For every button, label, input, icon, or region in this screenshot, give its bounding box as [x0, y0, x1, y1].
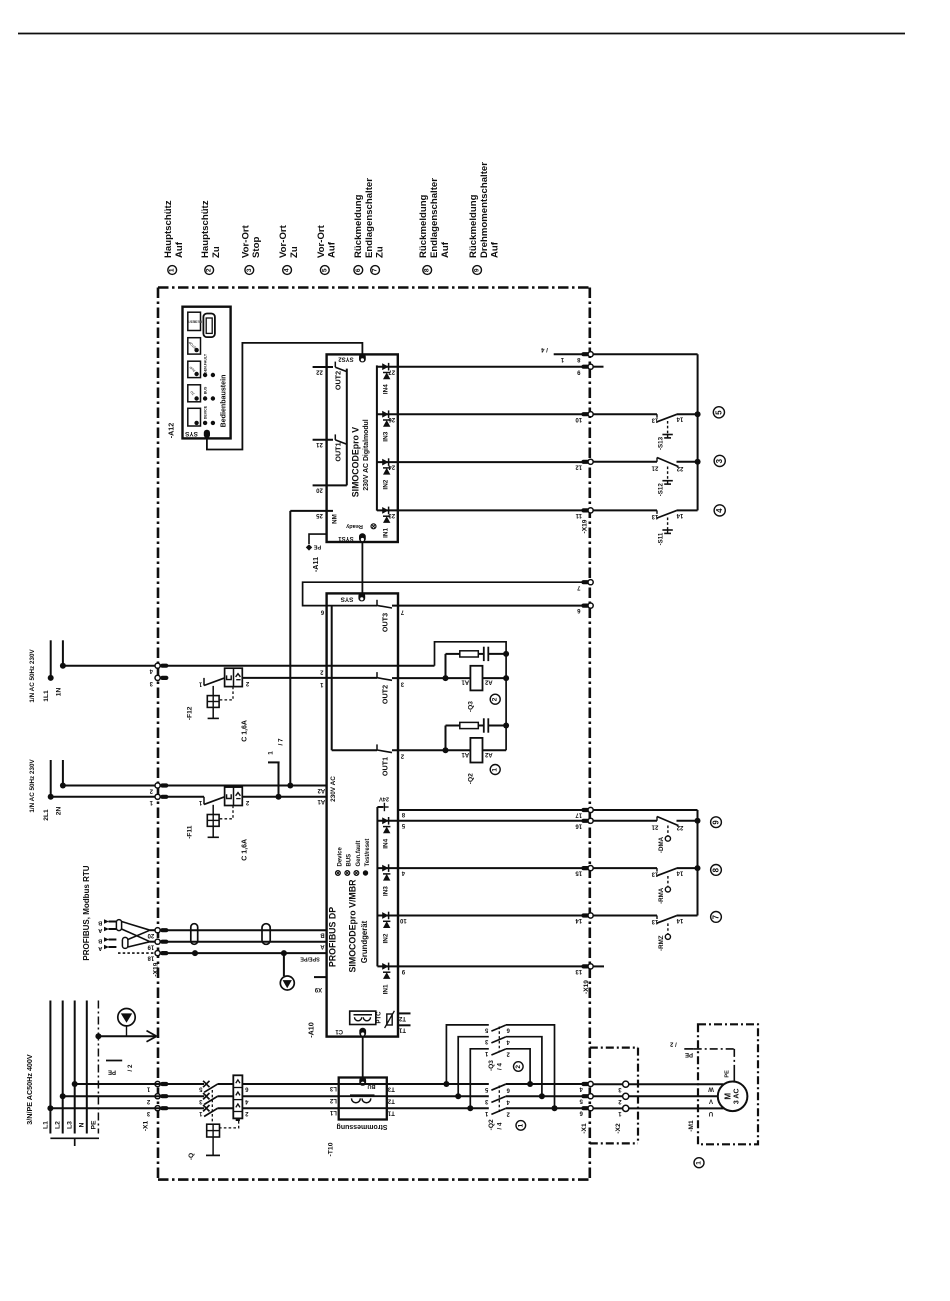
- svg-text:A2: A2: [484, 679, 492, 685]
- svg-text:21: 21: [651, 823, 658, 829]
- svg-text:Auf: Auf: [174, 241, 185, 258]
- svg-text:IN3: IN3: [382, 431, 389, 441]
- svg-text:1N: 1N: [56, 688, 63, 697]
- svg-text:T2: T2: [387, 1098, 395, 1104]
- svg-text:11: 11: [575, 512, 582, 518]
- svg-text:2: 2: [515, 1065, 522, 1069]
- svg-text:BUS: BUS: [347, 854, 353, 867]
- svg-text:/ 4: / 4: [497, 1063, 504, 1070]
- svg-text:BUS: BUS: [204, 386, 208, 394]
- svg-text:Zu: Zu: [211, 246, 222, 258]
- svg-text:-DMA: -DMA: [658, 836, 665, 853]
- svg-text:U: U: [709, 1110, 713, 1116]
- svg-text:Auf: Auf: [327, 241, 338, 258]
- svg-text:Endlagenschalter: Endlagenschalter: [429, 178, 440, 258]
- svg-text:Rückmeldung: Rückmeldung: [418, 194, 429, 258]
- svg-text:IN3: IN3: [382, 886, 389, 896]
- svg-text:PE: PE: [108, 1069, 116, 1075]
- svg-text:-S13: -S13: [658, 436, 665, 450]
- svg-text:4: 4: [284, 268, 291, 272]
- svg-text:Hauptschütz: Hauptschütz: [200, 200, 211, 258]
- svg-text:Vor-Ort: Vor-Ort: [240, 224, 251, 258]
- svg-text:SYS: SYS: [184, 430, 198, 437]
- svg-text:Rückmeldung: Rückmeldung: [353, 194, 364, 258]
- svg-text:26: 26: [388, 416, 395, 422]
- svg-text:DEVICE: DEVICE: [204, 405, 208, 419]
- svg-text:24: 24: [388, 464, 395, 470]
- svg-text:20: 20: [316, 487, 323, 493]
- svg-text:SYS1: SYS1: [338, 535, 354, 541]
- svg-text:OUT1: OUT1: [380, 757, 389, 776]
- svg-text:NM: NM: [332, 514, 339, 524]
- svg-text:Gen.fault: Gen.fault: [356, 840, 362, 866]
- svg-text:Grundgerät: Grundgerät: [360, 920, 369, 963]
- svg-text:5: 5: [714, 410, 723, 415]
- svg-text:B: B: [98, 938, 102, 944]
- svg-text:OUT3: OUT3: [380, 613, 389, 632]
- svg-text:Hauptschütz: Hauptschütz: [163, 200, 174, 258]
- svg-text:IN2: IN2: [382, 479, 389, 489]
- svg-text:T1: T1: [387, 1110, 395, 1116]
- svg-text:L3: L3: [329, 1085, 337, 1091]
- svg-text:PE: PE: [725, 1070, 731, 1078]
- svg-text:T2: T2: [398, 1015, 406, 1021]
- svg-text:Strommessung: Strommessung: [337, 1123, 388, 1130]
- svg-text:SIMOCODEpro V/MBR: SIMOCODEpro V/MBR: [348, 879, 358, 973]
- svg-text:/ 7: / 7: [278, 738, 285, 746]
- svg-text:-T10: -T10: [328, 1142, 335, 1156]
- svg-text:14: 14: [676, 416, 683, 422]
- svg-text:OUT1: OUT1: [334, 442, 343, 461]
- svg-text:13: 13: [575, 968, 582, 974]
- svg-text:Stop: Stop: [251, 237, 262, 258]
- svg-text:T1: T1: [398, 1027, 406, 1033]
- svg-text:Device: Device: [337, 846, 343, 866]
- svg-text:/ 2: / 2: [127, 1064, 134, 1071]
- svg-text:-X19: -X19: [152, 962, 159, 976]
- svg-text:1L1: 1L1: [43, 690, 50, 702]
- svg-text:1: 1: [169, 268, 176, 272]
- svg-text:20: 20: [147, 932, 154, 938]
- svg-text:23: 23: [388, 512, 395, 518]
- svg-text:Rückmeldung: Rückmeldung: [468, 194, 479, 258]
- svg-text:IN4: IN4: [382, 384, 389, 394]
- svg-text:T3: T3: [387, 1085, 395, 1091]
- svg-text:-M1: -M1: [688, 1120, 695, 1132]
- svg-text:-Q2: -Q2: [488, 1119, 495, 1130]
- svg-text:Vor-Ort: Vor-Ort: [278, 224, 289, 258]
- svg-text:22: 22: [676, 824, 683, 830]
- svg-text:8: 8: [712, 867, 721, 872]
- svg-text:PE: PE: [90, 1120, 97, 1130]
- svg-text:-F12: -F12: [187, 706, 194, 720]
- svg-text:4: 4: [715, 508, 724, 513]
- svg-text:-S12: -S12: [658, 483, 665, 497]
- svg-text:22: 22: [676, 465, 683, 471]
- svg-text:9: 9: [474, 268, 481, 272]
- svg-text:12: 12: [575, 463, 582, 469]
- svg-text:3 AC: 3 AC: [734, 1088, 741, 1104]
- svg-text:230V AC: 230V AC: [330, 776, 337, 802]
- svg-text:-Q2: -Q2: [467, 773, 474, 784]
- svg-text:GEN.FAULT: GEN.FAULT: [204, 353, 208, 374]
- svg-text:16: 16: [575, 822, 582, 828]
- svg-text:Ready: Ready: [345, 523, 363, 529]
- svg-text:1: 1: [267, 751, 274, 755]
- svg-text:Bedienbaustein: Bedienbaustein: [220, 375, 228, 428]
- svg-text:-A12: -A12: [167, 423, 176, 439]
- svg-text:IN1: IN1: [382, 984, 389, 994]
- svg-text:8: 8: [424, 268, 431, 272]
- svg-text:B: B: [320, 931, 325, 937]
- svg-text:/ 2: / 2: [669, 1041, 676, 1047]
- svg-text:2L1: 2L1: [43, 809, 50, 821]
- svg-text:C1: C1: [335, 1028, 343, 1034]
- svg-text:7: 7: [372, 268, 379, 272]
- svg-text:L1: L1: [42, 1121, 49, 1129]
- svg-text:-RMZ: -RMZ: [658, 935, 665, 951]
- svg-text:-A10: -A10: [307, 1022, 316, 1038]
- svg-text:3: 3: [246, 268, 253, 272]
- svg-text:-F11: -F11: [187, 825, 194, 839]
- svg-text:19: 19: [147, 943, 154, 949]
- svg-text:1: 1: [696, 1161, 703, 1165]
- svg-text:X9: X9: [314, 986, 322, 992]
- svg-text:IN1: IN1: [382, 527, 389, 537]
- svg-text:/ 4: / 4: [541, 346, 548, 352]
- svg-text:13: 13: [651, 513, 658, 519]
- svg-text:N: N: [79, 1122, 86, 1127]
- svg-text:1: 1: [517, 1124, 524, 1128]
- svg-text:RESET: RESET: [190, 319, 202, 323]
- svg-text:/ 4: / 4: [497, 1122, 504, 1129]
- svg-text:PROFIBUS, Modbus RTU: PROFIBUS, Modbus RTU: [82, 865, 91, 960]
- svg-text:3/N/PE AC50Hz 400V: 3/N/PE AC50Hz 400V: [25, 1054, 34, 1125]
- svg-text:-Q: -Q: [188, 1153, 195, 1160]
- svg-text:27: 27: [388, 368, 395, 374]
- svg-text:Vor-Ort: Vor-Ort: [316, 224, 327, 258]
- svg-text:Auf: Auf: [490, 241, 501, 258]
- svg-text:IN2: IN2: [382, 933, 389, 943]
- svg-text:L1: L1: [329, 1109, 337, 1115]
- svg-text:-X1: -X1: [143, 1121, 150, 1132]
- svg-text:22: 22: [316, 368, 323, 374]
- svg-text:Zu: Zu: [289, 246, 300, 258]
- svg-text:-A11: -A11: [311, 557, 320, 572]
- svg-text:2: 2: [492, 697, 499, 701]
- svg-text:13: 13: [651, 918, 658, 924]
- svg-text:-X19: -X19: [581, 519, 588, 533]
- svg-text:V: V: [709, 1098, 713, 1104]
- svg-text:5: 5: [321, 268, 328, 272]
- svg-text:M: M: [724, 1093, 733, 1100]
- svg-text:SYS2: SYS2: [338, 356, 354, 362]
- svg-text:7: 7: [712, 915, 721, 919]
- svg-text:B: B: [98, 920, 102, 926]
- svg-text:A1: A1: [461, 751, 469, 757]
- svg-text:L3: L3: [67, 1121, 74, 1129]
- svg-text:SPE/PE: SPE/PE: [300, 956, 320, 962]
- svg-text:-Q3: -Q3: [467, 701, 474, 712]
- svg-text:PE: PE: [685, 1051, 693, 1057]
- svg-text:10: 10: [399, 917, 406, 923]
- svg-text:L2: L2: [329, 1097, 337, 1103]
- svg-text:18: 18: [147, 955, 154, 961]
- svg-text:-S11: -S11: [658, 532, 665, 545]
- svg-text:1: 1: [492, 768, 499, 772]
- svg-text:OUT2: OUT2: [334, 371, 343, 390]
- svg-text:1/N AC 50Hz 230V: 1/N AC 50Hz 230V: [29, 759, 36, 813]
- svg-text:14: 14: [676, 512, 683, 518]
- svg-text:6: 6: [355, 268, 362, 272]
- svg-text:21: 21: [316, 441, 323, 447]
- svg-text:2N: 2N: [56, 807, 63, 816]
- svg-text:SYS: SYS: [340, 596, 354, 603]
- svg-text:21: 21: [651, 464, 658, 470]
- svg-text:-X1: -X1: [581, 1123, 588, 1134]
- svg-text:PROFIBUS DP: PROFIBUS DP: [328, 907, 338, 967]
- svg-text:24V: 24V: [379, 796, 389, 802]
- svg-text:13: 13: [651, 871, 658, 877]
- svg-text:SIMOCODEpro V: SIMOCODEpro V: [351, 427, 361, 498]
- svg-text:Auf: Auf: [440, 241, 451, 258]
- svg-text:OUT2: OUT2: [380, 685, 389, 704]
- svg-text:25: 25: [316, 512, 323, 518]
- svg-text:Zu: Zu: [375, 246, 386, 258]
- svg-text:A1: A1: [317, 798, 325, 804]
- svg-text:9: 9: [712, 820, 721, 825]
- svg-text:-Q3: -Q3: [488, 1060, 495, 1071]
- svg-text:17: 17: [575, 812, 582, 818]
- svg-text:-RMA: -RMA: [658, 887, 665, 904]
- svg-text:A1: A1: [461, 679, 469, 685]
- svg-text:2: 2: [206, 268, 213, 272]
- svg-text:Drehmomentschalter: Drehmomentschalter: [479, 162, 490, 258]
- svg-text:C 1,6A: C 1,6A: [241, 839, 248, 861]
- svg-text:Endlagenschalter: Endlagenschalter: [364, 178, 375, 258]
- svg-text:C 1,6A: C 1,6A: [241, 720, 248, 742]
- svg-text:PTC: PTC: [377, 1011, 383, 1024]
- svg-text:10: 10: [575, 416, 582, 422]
- svg-text:230V AC Digitalmodul: 230V AC Digitalmodul: [363, 419, 370, 490]
- svg-text:A2: A2: [484, 751, 492, 757]
- svg-text:15: 15: [575, 870, 582, 876]
- svg-text:13: 13: [651, 417, 658, 423]
- svg-text:14: 14: [575, 917, 582, 923]
- svg-text:PE: PE: [314, 544, 322, 550]
- svg-text:W: W: [708, 1086, 714, 1092]
- svg-text:14: 14: [676, 917, 683, 923]
- svg-text:-X2: -X2: [615, 1123, 622, 1134]
- svg-text:-X19: -X19: [583, 980, 590, 994]
- svg-text:L2: L2: [55, 1121, 62, 1129]
- svg-text:A: A: [320, 943, 325, 949]
- svg-text:1/N AC 50Hz 230V: 1/N AC 50Hz 230V: [29, 649, 36, 703]
- svg-text:IN4: IN4: [382, 838, 389, 848]
- svg-text:A2: A2: [317, 787, 325, 793]
- svg-text:Test/reset: Test/reset: [365, 839, 371, 867]
- svg-text:3: 3: [715, 458, 724, 463]
- svg-text:14: 14: [676, 870, 683, 876]
